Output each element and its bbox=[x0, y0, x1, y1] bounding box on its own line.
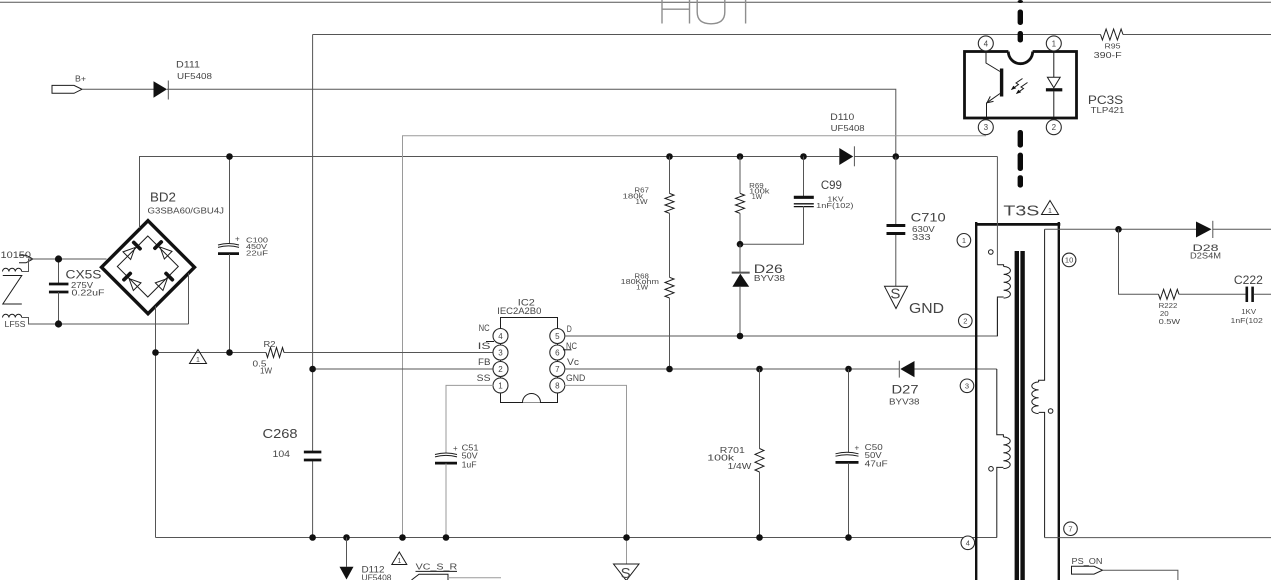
IC2 pin 2 bbox=[478, 357, 508, 377]
PC3S pin 1 bbox=[1046, 36, 1061, 51]
IC2 pin 1 bbox=[477, 373, 508, 393]
resistor R69 100k 1W bbox=[736, 157, 771, 214]
svg-text:IEC2A2B0: IEC2A2B0 bbox=[497, 306, 541, 316]
svg-text:1: 1 bbox=[1048, 208, 1052, 215]
svg-text:IS: IS bbox=[478, 341, 491, 351]
IC2 pin 3 bbox=[478, 341, 508, 360]
resistor R68 180Kohm 1W bbox=[621, 272, 674, 299]
wire bottom ground rail bbox=[156, 537, 997, 539]
transformer T3S pin 7 bbox=[1064, 522, 1078, 536]
svg-text:BD2: BD2 bbox=[150, 190, 176, 205]
diode D28 D2S4M bbox=[1190, 221, 1271, 260]
svg-text:4: 4 bbox=[498, 332, 503, 341]
PC3S phototransistor bbox=[986, 53, 1003, 118]
diode D112 UF5408 bbox=[340, 538, 393, 580]
svg-text:7: 7 bbox=[1068, 524, 1072, 533]
capacitor C268 104 bbox=[263, 426, 322, 460]
node VC_S_R flag bbox=[412, 563, 502, 580]
diode D110 UF5408 bbox=[830, 112, 865, 166]
transformer T3S secondary winding right bbox=[1032, 229, 1053, 537]
PC3S pin 2 bbox=[1046, 120, 1061, 135]
transformer T3S core bars bbox=[1017, 251, 1023, 580]
svg-text:3: 3 bbox=[498, 348, 503, 357]
wire input bottom bbox=[22, 318, 189, 325]
IC2 pin 6 bbox=[550, 341, 578, 360]
svg-text:GND: GND bbox=[909, 301, 944, 317]
svg-text:PS_ON: PS_ON bbox=[1072, 557, 1103, 566]
svg-text:333: 333 bbox=[912, 233, 931, 242]
PC3S LED bbox=[1046, 53, 1062, 118]
warning triangle at T3S bbox=[1042, 201, 1059, 216]
svg-text:3: 3 bbox=[984, 123, 989, 132]
transformer T3S pin 10 bbox=[1062, 253, 1076, 267]
resistor R222 20 0.5W bbox=[1159, 289, 1181, 326]
IC2 pin 5 bbox=[550, 324, 572, 344]
svg-text:1W: 1W bbox=[752, 192, 763, 201]
transformer T3S primary winding upper bbox=[989, 250, 1011, 336]
svg-text:R95: R95 bbox=[1105, 41, 1121, 50]
resistor R701 100k 1/4W bbox=[707, 369, 764, 538]
svg-text:C222: C222 bbox=[1234, 273, 1263, 287]
svg-text:TLP421: TLP421 bbox=[1091, 106, 1125, 115]
svg-text:D27: D27 bbox=[892, 383, 919, 397]
inductor LF5S common-mode choke bbox=[3, 268, 26, 329]
svg-text:1: 1 bbox=[498, 381, 503, 390]
wire C from wire E down into transformer bbox=[996, 157, 998, 265]
wire B from D111 to elbow and down to C710 node bbox=[167, 89, 896, 156]
wire vertical from wire A down through C268 column bbox=[312, 35, 314, 538]
svg-text:+: + bbox=[235, 235, 240, 244]
capacitor C50 50V 47uF bbox=[836, 369, 888, 538]
IC2 pin 7 bbox=[550, 357, 580, 377]
transformer T3S label bbox=[1003, 203, 1039, 220]
svg-text:D111: D111 bbox=[176, 59, 200, 69]
svg-text:2: 2 bbox=[963, 317, 967, 326]
svg-text:1: 1 bbox=[1052, 39, 1057, 48]
wire FB row bbox=[309, 366, 493, 373]
wire D row pin5 to transformer winding bbox=[565, 299, 998, 340]
PC3S pin 4 bbox=[978, 36, 993, 51]
svg-text:50V: 50V bbox=[462, 452, 479, 461]
svg-text:2: 2 bbox=[498, 365, 503, 374]
junction dots on wire E bbox=[226, 153, 899, 160]
warning triangle 1 near R2 bbox=[190, 350, 207, 365]
svg-text:1nF(102): 1nF(102) bbox=[816, 201, 853, 210]
diode D111 UF5408 bbox=[154, 59, 213, 99]
node 10150 input flag bbox=[1, 250, 34, 263]
optocoupler PC3S TLP421 body bbox=[965, 39, 1126, 118]
svg-text:50V: 50V bbox=[865, 451, 883, 460]
bridge BD2 diode bottom-right bbox=[155, 271, 175, 291]
svg-text:0.22uF: 0.22uF bbox=[72, 289, 105, 298]
junction dots R2 row bbox=[152, 349, 233, 356]
junction dots bottom rail bbox=[309, 534, 852, 541]
svg-text:VC_S_R: VC_S_R bbox=[416, 563, 458, 572]
svg-text:UF5408: UF5408 bbox=[362, 573, 393, 580]
wire E middle rail with corner to BD2 bbox=[140, 157, 998, 229]
svg-text:8: 8 bbox=[555, 381, 560, 390]
svg-text:1W: 1W bbox=[636, 282, 648, 291]
svg-text:FB: FB bbox=[478, 357, 491, 367]
resistor R95 390-F bbox=[1094, 29, 1123, 60]
IC2 pin 8 bbox=[550, 373, 586, 393]
svg-text:1uF: 1uF bbox=[462, 461, 477, 470]
svg-text:1W: 1W bbox=[260, 367, 272, 376]
svg-text:G3SBA60/GBU4J: G3SBA60/GBU4J bbox=[148, 207, 225, 216]
svg-text:6: 6 bbox=[555, 348, 560, 357]
junction dots Vc row bbox=[666, 366, 852, 373]
svg-text:S: S bbox=[621, 565, 631, 580]
transformer T3S pin 4 bbox=[961, 536, 975, 550]
svg-text:NC: NC bbox=[479, 323, 490, 333]
wire secondary top to D28 bbox=[1045, 226, 1196, 233]
svg-text:C710: C710 bbox=[911, 211, 946, 225]
svg-text:0.5W: 0.5W bbox=[1159, 317, 1181, 326]
wire SS pin1 to C51 bbox=[446, 385, 493, 452]
node GND label bbox=[909, 301, 944, 317]
svg-text:GND: GND bbox=[566, 373, 586, 383]
bridge BD2 inner diamond wire bbox=[117, 236, 178, 297]
svg-text:C99: C99 bbox=[821, 178, 842, 192]
svg-text:47uF: 47uF bbox=[865, 460, 888, 469]
svg-text:1nF(102: 1nF(102 bbox=[1231, 316, 1263, 325]
wire PS_ON bbox=[1103, 570, 1178, 580]
svg-text:1KV: 1KV bbox=[1241, 307, 1256, 316]
junction dot R69/C99/D26 bbox=[737, 241, 744, 248]
wire bridge bottom vertex down to ground rail bbox=[155, 306, 157, 538]
svg-text:D: D bbox=[567, 324, 572, 334]
svg-text:BYV38: BYV38 bbox=[889, 397, 920, 406]
bridge BD2 diode bottom-left bbox=[121, 271, 141, 291]
svg-text:D2S4M: D2S4M bbox=[1190, 251, 1221, 260]
svg-text:390-F: 390-F bbox=[1094, 51, 1122, 60]
svg-text:2: 2 bbox=[1052, 123, 1057, 132]
transformer T3S pin 1 bbox=[957, 234, 971, 248]
PC3S pin 3 bbox=[978, 120, 993, 135]
svg-text:C268: C268 bbox=[263, 426, 298, 441]
svg-text:1: 1 bbox=[397, 558, 401, 565]
svg-text:CX5S: CX5S bbox=[66, 267, 102, 281]
wire input top to bridge bbox=[22, 259, 107, 272]
capacitor C222 1KV 1nF(102 bbox=[1231, 273, 1271, 325]
svg-text:T3S: T3S bbox=[1003, 203, 1039, 220]
resistor R67 180k 1W bbox=[623, 157, 675, 214]
svg-text:7: 7 bbox=[555, 365, 560, 374]
svg-text:4: 4 bbox=[984, 39, 989, 48]
wire R69 to D26 junction bbox=[739, 213, 741, 244]
wire A upper rail bbox=[313, 34, 1271, 36]
svg-text:10: 10 bbox=[1065, 256, 1073, 265]
op-amp U IC2 IEC2A2B0 body bbox=[497, 297, 557, 402]
wire IS row through R2 bbox=[156, 352, 494, 354]
ground S-triangle bottom bbox=[614, 538, 640, 580]
bridge rectifier BD2 outer diamond bbox=[102, 190, 225, 314]
node B+ input flag bbox=[52, 75, 86, 94]
bridge BD2 diode top-left bbox=[122, 240, 142, 260]
capacitor C710 630V 333 bbox=[887, 157, 947, 287]
wire GND pin8 down to rail bbox=[565, 385, 627, 537]
svg-text:UF5408: UF5408 bbox=[177, 72, 213, 81]
svg-text:+: + bbox=[855, 443, 860, 452]
wire transformer pin7 out bbox=[1045, 537, 1271, 539]
wire top border bbox=[0, 1, 1271, 3]
svg-text:1W: 1W bbox=[636, 197, 648, 206]
warning triangle near D112 bbox=[392, 552, 407, 565]
capacitor CX5S 275V 0.22uF bbox=[49, 259, 105, 324]
svg-text:1: 1 bbox=[196, 357, 200, 364]
wire D from elbow to PC3S pin3 bbox=[403, 136, 987, 538]
transformer T3S pin 3 bbox=[960, 379, 974, 393]
ground S-triangle at C710 bbox=[885, 285, 908, 308]
diode D27 BYV38 bbox=[889, 361, 997, 407]
node PS_ON flag bbox=[1072, 557, 1103, 574]
svg-text:LF5S: LF5S bbox=[5, 320, 26, 329]
svg-text:104: 104 bbox=[273, 449, 291, 459]
svg-text:1/4W: 1/4W bbox=[728, 462, 752, 471]
svg-text:R2: R2 bbox=[264, 340, 277, 349]
transformer T3S pin 2 bbox=[959, 314, 973, 328]
transformer T3S winding lower-left bbox=[989, 369, 1011, 538]
svg-text:Vc: Vc bbox=[567, 357, 580, 367]
svg-text:BYV38: BYV38 bbox=[754, 274, 786, 283]
diode D26 BYV38 bbox=[732, 244, 786, 336]
svg-text:D110: D110 bbox=[830, 112, 854, 122]
junction dots CX5S bbox=[55, 255, 62, 327]
svg-text:22uF: 22uF bbox=[246, 249, 269, 258]
wire R67 to R68 bbox=[669, 213, 671, 277]
resistor R2 0.5 1W bbox=[253, 340, 285, 376]
capacitor C99 1KV 1nF(102) bbox=[740, 157, 854, 245]
bridge BD2 diode top-right bbox=[152, 239, 172, 259]
transformer T3S body bbox=[975, 222, 1060, 580]
svg-text:+: + bbox=[453, 444, 458, 453]
wire Vc row pin7 to D27 bbox=[565, 368, 900, 370]
node HOT section label bbox=[662, 0, 746, 24]
PC3S light arrows bbox=[1011, 79, 1028, 95]
wire isolation barrier dashed bbox=[1018, 0, 1023, 188]
capacitor C100 450V 22uF bbox=[218, 157, 269, 353]
IC2 pin 4 bbox=[479, 323, 508, 343]
wire bridge right vertex down to AC bottom bbox=[188, 273, 190, 324]
wire R68 down to Vc rail bbox=[669, 298, 671, 369]
capacitor C51 50V 1uF bbox=[435, 444, 479, 538]
svg-text:PC3S: PC3S bbox=[1088, 93, 1123, 107]
svg-text:3: 3 bbox=[965, 382, 969, 391]
wire R222 to C222 bbox=[1179, 293, 1246, 295]
svg-text:4: 4 bbox=[966, 539, 970, 548]
svg-text:B+: B+ bbox=[75, 75, 86, 84]
wire B+ to D111 bbox=[82, 88, 154, 90]
svg-text:S: S bbox=[890, 285, 900, 302]
svg-text:UF5408: UF5408 bbox=[831, 124, 866, 133]
svg-text:1: 1 bbox=[962, 236, 966, 245]
wire snubber branch down bbox=[1119, 229, 1159, 294]
svg-text:5: 5 bbox=[555, 332, 560, 341]
svg-text:SS: SS bbox=[477, 373, 491, 383]
